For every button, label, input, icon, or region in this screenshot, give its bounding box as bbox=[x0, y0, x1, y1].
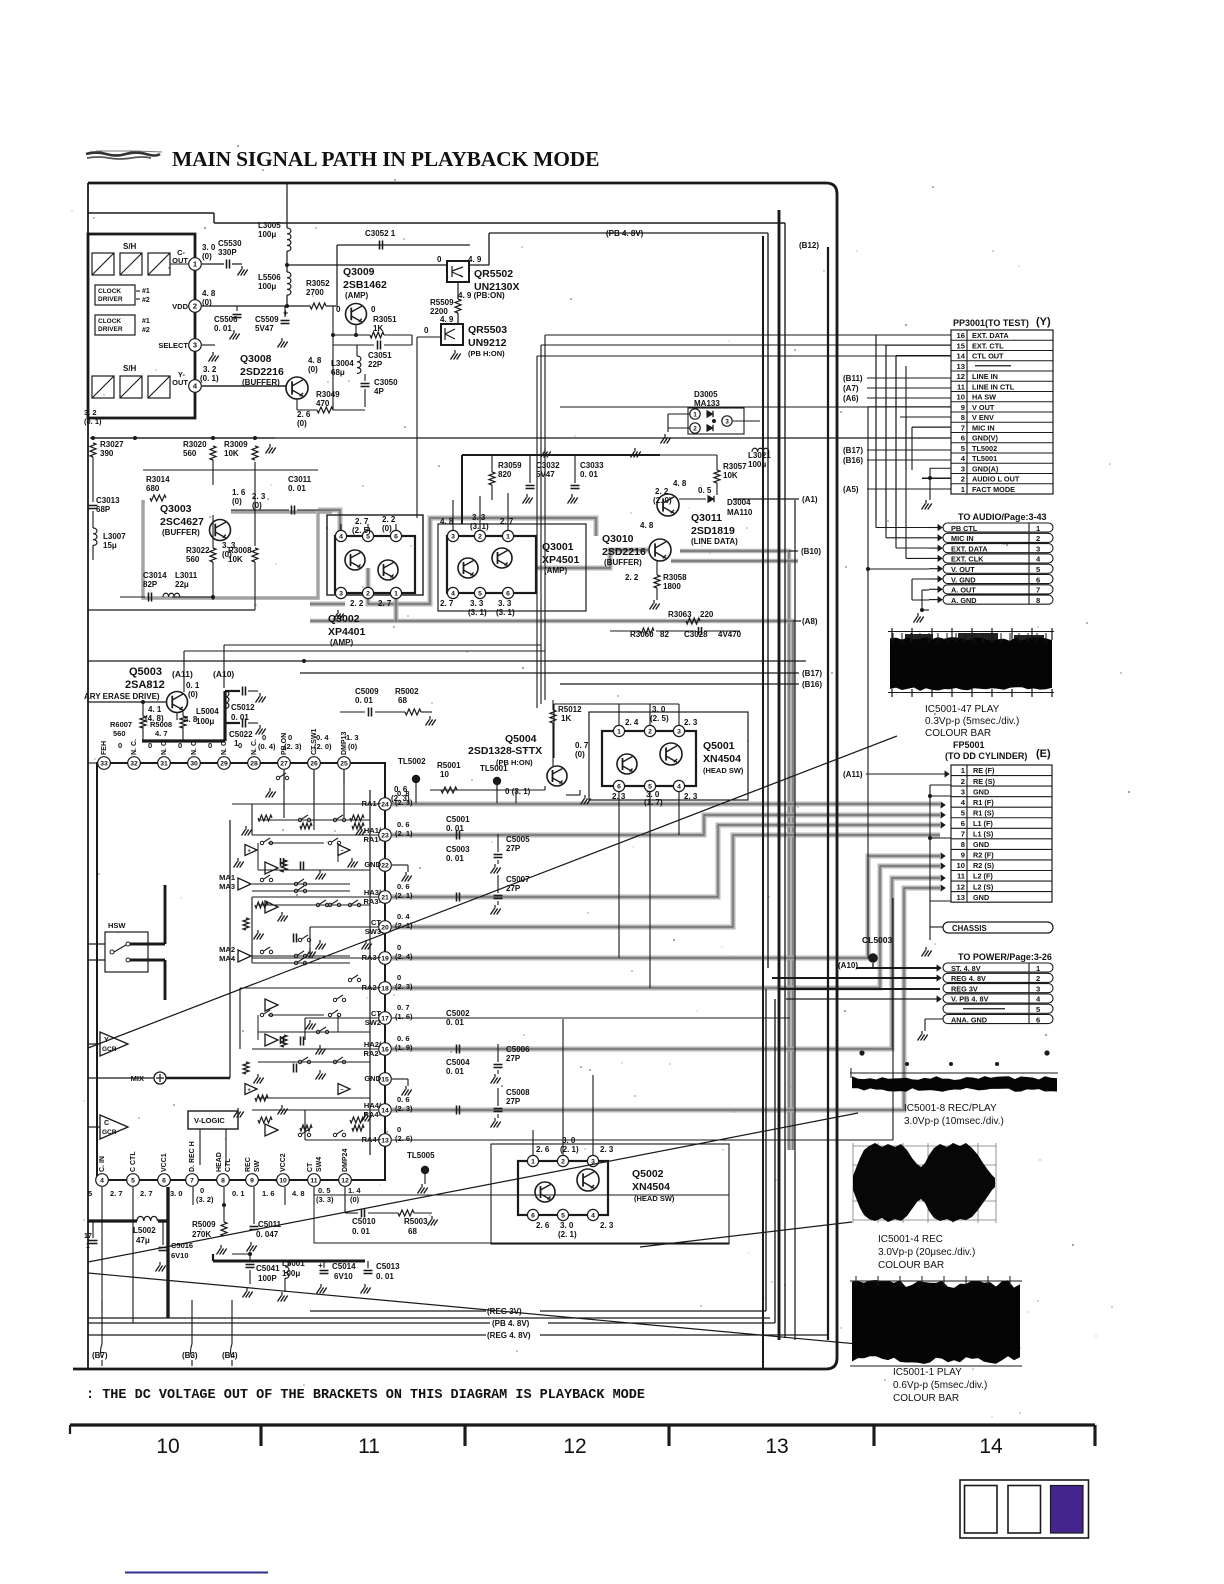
svg-text:470: 470 bbox=[316, 399, 330, 408]
svg-text:6V10: 6V10 bbox=[171, 1251, 189, 1260]
svg-text:6: 6 bbox=[394, 534, 398, 541]
svg-text:(PB 4. 8V): (PB 4. 8V) bbox=[492, 1319, 530, 1328]
svg-text:C3032: C3032 bbox=[536, 461, 560, 470]
svg-text:R5509: R5509 bbox=[430, 298, 454, 307]
svg-text:2: 2 bbox=[1036, 534, 1040, 543]
svg-text:0 (3. 1): 0 (3. 1) bbox=[505, 787, 531, 796]
svg-text:Q5001: Q5001 bbox=[703, 740, 735, 752]
svg-text:31: 31 bbox=[160, 761, 168, 768]
svg-text:0. 5: 0. 5 bbox=[318, 1186, 331, 1195]
svg-text:(2. 0): (2. 0) bbox=[314, 742, 332, 751]
svg-text:2SD2216: 2SD2216 bbox=[240, 366, 284, 378]
svg-text:C3033: C3033 bbox=[580, 461, 604, 470]
svg-text:1: 1 bbox=[506, 534, 510, 541]
svg-text:(Y): (Y) bbox=[1036, 316, 1051, 328]
svg-text:IC5001-1 PLAY: IC5001-1 PLAY bbox=[893, 1367, 962, 1378]
svg-text:ST. 4. 8V: ST. 4. 8V bbox=[951, 964, 981, 973]
svg-text:S/H: S/H bbox=[123, 242, 137, 251]
svg-text:11: 11 bbox=[358, 1435, 380, 1458]
svg-text:7: 7 bbox=[961, 423, 965, 432]
svg-text:0. 01: 0. 01 bbox=[446, 854, 464, 863]
svg-text:0.3Vp-p (5msec./div.): 0.3Vp-p (5msec./div.) bbox=[925, 716, 1019, 727]
svg-text:6: 6 bbox=[1036, 1015, 1040, 1024]
svg-text:C5012: C5012 bbox=[231, 703, 255, 712]
svg-text:HSW: HSW bbox=[108, 921, 126, 930]
svg-text:25: 25 bbox=[340, 761, 348, 768]
svg-text:CHASSIS: CHASSIS bbox=[952, 924, 987, 933]
svg-text:GND: GND bbox=[973, 787, 989, 796]
svg-text:0. 6: 0. 6 bbox=[397, 882, 410, 891]
svg-text:5V47: 5V47 bbox=[536, 470, 555, 479]
svg-text:560: 560 bbox=[183, 449, 197, 458]
svg-text:(0. 1): (0. 1) bbox=[84, 417, 102, 426]
svg-text:REG 3V: REG 3V bbox=[951, 984, 978, 993]
svg-text:13: 13 bbox=[957, 893, 965, 902]
svg-text:15: 15 bbox=[381, 1077, 389, 1084]
svg-text:: THE DC VOLTAGE OUT OF THE BR: : THE DC VOLTAGE OUT OF THE BRACKETS ON … bbox=[86, 1388, 645, 1403]
svg-text:(2. 4): (2. 4) bbox=[395, 952, 413, 961]
svg-text:0. 01: 0. 01 bbox=[231, 713, 249, 722]
svg-text:0. 047: 0. 047 bbox=[256, 1230, 279, 1239]
svg-text:(A5): (A5) bbox=[843, 485, 859, 494]
svg-text:0. 7: 0. 7 bbox=[397, 1003, 410, 1012]
svg-text:GND: GND bbox=[364, 860, 381, 869]
svg-text:2SD2216: 2SD2216 bbox=[602, 546, 646, 558]
svg-text:V. OUT: V. OUT bbox=[951, 565, 975, 574]
svg-text:28: 28 bbox=[250, 761, 258, 768]
svg-text:4. 8: 4. 8 bbox=[292, 1189, 305, 1198]
svg-text:MA110: MA110 bbox=[727, 508, 753, 517]
svg-text:0: 0 bbox=[118, 741, 122, 750]
svg-text:6: 6 bbox=[162, 1178, 166, 1185]
svg-text:68P: 68P bbox=[96, 505, 111, 514]
svg-text:3. 3: 3. 3 bbox=[472, 513, 486, 522]
svg-text:7: 7 bbox=[1036, 586, 1040, 595]
svg-text:3: 3 bbox=[1036, 984, 1040, 993]
svg-text:(AMP): (AMP) bbox=[544, 566, 567, 575]
svg-text:(A11): (A11) bbox=[843, 770, 863, 779]
svg-text:(1. 9): (1. 9) bbox=[395, 1043, 413, 1052]
svg-text:(2. 0): (2. 0) bbox=[653, 496, 672, 505]
svg-text:21: 21 bbox=[381, 895, 389, 902]
svg-text:0. 6: 0. 6 bbox=[397, 1095, 410, 1104]
svg-text:2SA812: 2SA812 bbox=[125, 679, 165, 691]
svg-text:27P: 27P bbox=[506, 1097, 521, 1106]
svg-text:V. PB 4. 8V: V. PB 4. 8V bbox=[951, 995, 989, 1004]
svg-text:IC5001-8 REC/PLAY: IC5001-8 REC/PLAY bbox=[904, 1103, 997, 1114]
svg-text:12: 12 bbox=[341, 1178, 349, 1185]
svg-text:(REG 4. 8V): (REG 4. 8V) bbox=[487, 1331, 531, 1340]
svg-text:16: 16 bbox=[381, 1047, 389, 1054]
svg-text:MA2: MA2 bbox=[219, 945, 235, 954]
svg-text:0. 01: 0. 01 bbox=[376, 1272, 394, 1281]
svg-text:3: 3 bbox=[961, 464, 965, 473]
svg-text:R5008: R5008 bbox=[150, 720, 172, 729]
svg-text:2: 2 bbox=[366, 591, 370, 598]
svg-text:17: 17 bbox=[381, 1016, 389, 1023]
svg-text:5: 5 bbox=[131, 1178, 135, 1185]
svg-text:3. 3: 3. 3 bbox=[498, 599, 512, 608]
svg-text:1. 3: 1. 3 bbox=[346, 733, 359, 742]
svg-text:(BUFFER): (BUFFER) bbox=[162, 528, 200, 537]
svg-text:(TO DD CYLINDER): (TO DD CYLINDER) bbox=[945, 751, 1027, 761]
svg-text:C5003: C5003 bbox=[446, 845, 470, 854]
svg-text:4: 4 bbox=[100, 1178, 104, 1185]
svg-text:0. 01: 0. 01 bbox=[355, 696, 373, 705]
svg-text:L5506: L5506 bbox=[258, 273, 281, 282]
svg-text:D3005: D3005 bbox=[694, 390, 718, 399]
svg-text:RA2-: RA2- bbox=[363, 1049, 381, 1058]
svg-text:270K: 270K bbox=[192, 1230, 211, 1239]
svg-text:82P: 82P bbox=[143, 580, 158, 589]
svg-text:CTL: CTL bbox=[225, 1158, 232, 1172]
svg-text:2SB1462: 2SB1462 bbox=[343, 279, 387, 291]
svg-text:1: 1 bbox=[193, 260, 197, 269]
svg-text:(2. 1): (2. 1) bbox=[558, 1230, 577, 1239]
svg-text:V ENV: V ENV bbox=[972, 413, 994, 422]
svg-text:0. 01: 0. 01 bbox=[214, 324, 232, 333]
svg-text:(PB H:ON): (PB H:ON) bbox=[468, 349, 505, 358]
svg-text:2. 7: 2. 7 bbox=[355, 517, 369, 526]
svg-text:4. 7: 4. 7 bbox=[155, 729, 168, 738]
svg-text:15: 15 bbox=[957, 341, 966, 350]
svg-text:(B16): (B16) bbox=[843, 456, 863, 465]
svg-text:0: 0 bbox=[208, 741, 212, 750]
svg-text:REG 4. 8V: REG 4. 8V bbox=[951, 974, 986, 983]
svg-text:CT: CT bbox=[371, 1009, 381, 1018]
svg-text:C5022: C5022 bbox=[229, 730, 253, 739]
svg-text:0: 0 bbox=[148, 741, 152, 750]
svg-text:(B7): (B7) bbox=[92, 1351, 108, 1360]
svg-text:Q3011: Q3011 bbox=[691, 512, 722, 524]
svg-text:R3027: R3027 bbox=[100, 440, 124, 449]
svg-text:4: 4 bbox=[961, 798, 966, 807]
svg-text:N. C.: N. C. bbox=[131, 739, 138, 755]
svg-text:C5008: C5008 bbox=[506, 1088, 530, 1097]
svg-text:15μ: 15μ bbox=[103, 541, 117, 550]
svg-text:6: 6 bbox=[506, 591, 510, 598]
svg-text:0: 0 bbox=[397, 1125, 401, 1134]
svg-text:220: 220 bbox=[700, 610, 714, 619]
svg-text:1. 6: 1. 6 bbox=[232, 488, 246, 497]
svg-text:0. 6: 0. 6 bbox=[397, 1034, 410, 1043]
svg-text:(2. 6): (2. 6) bbox=[395, 1134, 413, 1143]
svg-text:4: 4 bbox=[1036, 995, 1041, 1004]
svg-text:11: 11 bbox=[957, 382, 966, 391]
svg-text:8: 8 bbox=[961, 413, 965, 422]
svg-text:3: 3 bbox=[961, 787, 965, 796]
svg-text:L2 (F): L2 (F) bbox=[973, 872, 993, 881]
svg-text:(A10): (A10) bbox=[838, 961, 858, 970]
svg-text:4: 4 bbox=[961, 454, 966, 463]
svg-text:R3051: R3051 bbox=[373, 315, 397, 324]
svg-text:R3022: R3022 bbox=[186, 546, 210, 555]
svg-text:4: 4 bbox=[677, 784, 681, 791]
svg-text:4. 1: 4. 1 bbox=[148, 705, 162, 714]
svg-text:(0): (0) bbox=[382, 524, 392, 533]
svg-text:N. C.: N. C. bbox=[221, 739, 228, 755]
svg-text:1: 1 bbox=[531, 1159, 535, 1166]
svg-text:3: 3 bbox=[1036, 544, 1040, 553]
svg-text:COLOUR BAR: COLOUR BAR bbox=[893, 1393, 959, 1404]
svg-text:0. 01: 0. 01 bbox=[446, 824, 464, 833]
svg-text:(PB H:ON): (PB H:ON) bbox=[496, 758, 533, 767]
svg-text:4: 4 bbox=[339, 534, 343, 541]
svg-text:R5003: R5003 bbox=[404, 1217, 428, 1226]
svg-text:HA3/: HA3/ bbox=[364, 888, 382, 897]
svg-text:S/H: S/H bbox=[123, 364, 137, 373]
svg-text:R3049: R3049 bbox=[316, 390, 340, 399]
svg-text:2SC4627: 2SC4627 bbox=[160, 516, 204, 528]
svg-text:2. 7: 2. 7 bbox=[500, 517, 514, 526]
svg-text:33: 33 bbox=[100, 761, 108, 768]
svg-text:(A1): (A1) bbox=[802, 495, 818, 504]
svg-text:TO AUDIO/Page:3-43: TO AUDIO/Page:3-43 bbox=[958, 512, 1047, 522]
svg-text:0. 5: 0. 5 bbox=[698, 486, 712, 495]
svg-text:1. 6: 1. 6 bbox=[262, 1189, 275, 1198]
svg-text:(0): (0) bbox=[297, 419, 307, 428]
svg-text:560: 560 bbox=[113, 729, 126, 738]
svg-text:#1: #1 bbox=[142, 318, 150, 325]
svg-text:GND: GND bbox=[364, 1074, 381, 1083]
svg-text:13: 13 bbox=[957, 362, 965, 371]
svg-text:14: 14 bbox=[979, 1435, 1003, 1458]
svg-text:Q5003: Q5003 bbox=[129, 666, 162, 678]
svg-text:GND(V): GND(V) bbox=[972, 434, 999, 443]
svg-text:IC5001-4 REC: IC5001-4 REC bbox=[878, 1234, 943, 1245]
svg-text:Q3010: Q3010 bbox=[602, 533, 634, 545]
svg-text:EXT. CLK: EXT. CLK bbox=[951, 555, 984, 564]
svg-text:LINE IN: LINE IN bbox=[972, 372, 998, 381]
svg-text:(3. 2): (3. 2) bbox=[196, 1195, 214, 1204]
svg-text:(B12): (B12) bbox=[799, 241, 819, 250]
svg-text:3. 3: 3. 3 bbox=[470, 599, 484, 608]
svg-text:(A8): (A8) bbox=[802, 617, 818, 626]
svg-text:100P: 100P bbox=[258, 1274, 277, 1283]
svg-text:MAIN SIGNAL PATH IN PLAYBACK M: MAIN SIGNAL PATH IN PLAYBACK MODE bbox=[172, 147, 599, 171]
svg-text:OUT: OUT bbox=[172, 378, 188, 387]
svg-text:0.6Vp-p (5msec./div.): 0.6Vp-p (5msec./div.) bbox=[893, 1380, 987, 1391]
svg-text:XP4401: XP4401 bbox=[328, 626, 366, 638]
svg-text:7: 7 bbox=[190, 1178, 194, 1185]
svg-text:17: 17 bbox=[84, 1233, 92, 1240]
svg-text:C3013: C3013 bbox=[96, 496, 120, 505]
svg-text:L5004: L5004 bbox=[196, 707, 219, 716]
svg-text:100μ: 100μ bbox=[258, 282, 276, 291]
svg-text:1: 1 bbox=[617, 729, 621, 736]
svg-text:(0): (0) bbox=[252, 501, 262, 510]
svg-text:MIC IN: MIC IN bbox=[951, 534, 974, 543]
svg-text:V. GND: V. GND bbox=[951, 575, 975, 584]
svg-text:9: 9 bbox=[961, 403, 965, 412]
svg-text:(B4): (B4) bbox=[222, 1351, 238, 1360]
svg-text:(2. 3): (2. 3) bbox=[395, 982, 413, 991]
svg-text:2: 2 bbox=[961, 777, 965, 786]
svg-text:L3011: L3011 bbox=[175, 571, 198, 580]
svg-text:0. 6: 0. 6 bbox=[397, 820, 410, 829]
svg-text:10: 10 bbox=[440, 770, 449, 779]
svg-text:0. 01: 0. 01 bbox=[446, 1067, 464, 1076]
svg-text:4. 9 (PB:ON): 4. 9 (PB:ON) bbox=[458, 291, 505, 300]
svg-text:2. 3: 2. 3 bbox=[600, 1221, 614, 1230]
svg-text:0: 0 bbox=[288, 733, 292, 742]
svg-text:100μ: 100μ bbox=[196, 717, 214, 726]
svg-text:AUDIO L OUT: AUDIO L OUT bbox=[972, 475, 1020, 484]
svg-text:SW4: SW4 bbox=[316, 1157, 323, 1172]
svg-text:R2 (S): R2 (S) bbox=[973, 861, 995, 870]
svg-text:(PB 4. 8V): (PB 4. 8V) bbox=[606, 229, 644, 238]
svg-text:CLOCK: CLOCK bbox=[98, 318, 121, 325]
svg-text:+: + bbox=[248, 849, 251, 855]
svg-text:R2 (F): R2 (F) bbox=[973, 851, 994, 860]
svg-text:(LINE DATA): (LINE DATA) bbox=[691, 537, 738, 546]
svg-text:C5004: C5004 bbox=[446, 1058, 470, 1067]
svg-text:C5011: C5011 bbox=[258, 1220, 282, 1229]
svg-text:XN4504: XN4504 bbox=[632, 1181, 670, 1193]
svg-text:XN4504: XN4504 bbox=[703, 753, 741, 765]
svg-text:11: 11 bbox=[957, 872, 966, 881]
svg-text:3. 0: 3. 0 bbox=[170, 1189, 183, 1198]
svg-text:8: 8 bbox=[961, 840, 965, 849]
svg-text:(HEAD SW): (HEAD SW) bbox=[703, 766, 744, 775]
svg-text:Q5004: Q5004 bbox=[505, 733, 537, 745]
svg-text:(3. 1): (3. 1) bbox=[496, 608, 515, 617]
svg-text:C3014: C3014 bbox=[143, 571, 167, 580]
svg-text:3. 0: 3. 0 bbox=[202, 243, 216, 252]
svg-text:MA3: MA3 bbox=[219, 882, 235, 891]
svg-text:LINE IN CTL: LINE IN CTL bbox=[972, 382, 1015, 391]
svg-text:GND: GND bbox=[973, 893, 989, 902]
svg-text:C5530: C5530 bbox=[218, 239, 242, 248]
svg-text:4. 8: 4. 8 bbox=[202, 289, 216, 298]
svg-text:9: 9 bbox=[961, 851, 965, 860]
svg-text:(2. 1): (2. 1) bbox=[395, 829, 413, 838]
svg-text:0. 1: 0. 1 bbox=[186, 681, 200, 690]
svg-text:(B17): (B17) bbox=[843, 446, 863, 455]
svg-text:26: 26 bbox=[310, 761, 318, 768]
svg-text:0. 01: 0. 01 bbox=[288, 484, 306, 493]
svg-text:FP5001: FP5001 bbox=[953, 740, 985, 750]
svg-text:C5014: C5014 bbox=[332, 1262, 356, 1271]
svg-text:12: 12 bbox=[957, 882, 965, 891]
svg-text:0. 7: 0. 7 bbox=[575, 741, 589, 750]
svg-text:+: + bbox=[318, 1261, 323, 1270]
svg-text:RE (S): RE (S) bbox=[973, 777, 995, 786]
svg-text:10K: 10K bbox=[224, 449, 239, 458]
svg-text:DMP24: DMP24 bbox=[342, 1149, 349, 1172]
svg-text:390: 390 bbox=[100, 449, 114, 458]
svg-text:2. 3: 2. 3 bbox=[684, 792, 698, 801]
svg-text:(AMP): (AMP) bbox=[330, 638, 353, 647]
svg-text:3: 3 bbox=[193, 341, 197, 350]
svg-text:ANA. GND: ANA. GND bbox=[951, 1015, 987, 1024]
svg-text:SELECT: SELECT bbox=[158, 341, 188, 350]
svg-text:22μ: 22μ bbox=[175, 580, 189, 589]
svg-text:(A6): (A6) bbox=[843, 394, 859, 403]
svg-text:EXT. DATA: EXT. DATA bbox=[951, 544, 988, 553]
svg-text:0. 1: 0. 1 bbox=[232, 1189, 245, 1198]
svg-text:V OUT: V OUT bbox=[972, 403, 995, 412]
svg-text:10: 10 bbox=[957, 393, 965, 402]
svg-text:Q3003: Q3003 bbox=[160, 503, 192, 515]
svg-text:C5005: C5005 bbox=[506, 835, 530, 844]
svg-text:C5001: C5001 bbox=[446, 815, 470, 824]
svg-text:N. C.: N. C. bbox=[251, 739, 258, 755]
svg-text:68: 68 bbox=[398, 696, 407, 705]
svg-text:22: 22 bbox=[381, 863, 389, 870]
svg-text:CL5003: CL5003 bbox=[862, 935, 893, 945]
svg-text:PP3001(TO TEST): PP3001(TO TEST) bbox=[953, 318, 1029, 328]
svg-text:IC5001-47 PLAY: IC5001-47 PLAY bbox=[925, 704, 1000, 715]
svg-text:3: 3 bbox=[677, 729, 681, 736]
svg-text:#1: #1 bbox=[142, 288, 150, 295]
svg-text:D3004: D3004 bbox=[727, 498, 751, 507]
svg-text:(1. 7): (1. 7) bbox=[644, 798, 663, 807]
svg-text:0: 0 bbox=[437, 255, 442, 264]
svg-text:VCC2: VCC2 bbox=[280, 1153, 287, 1172]
svg-text:2SD1328-STTX: 2SD1328-STTX bbox=[468, 745, 542, 757]
svg-text:−: − bbox=[341, 1088, 344, 1094]
svg-text:27P: 27P bbox=[506, 844, 521, 853]
svg-text:2. 2: 2. 2 bbox=[350, 599, 364, 608]
svg-text:0. 01: 0. 01 bbox=[446, 1018, 464, 1027]
svg-text:Q5002: Q5002 bbox=[632, 1168, 664, 1180]
svg-text:(0. 4): (0. 4) bbox=[258, 742, 276, 751]
svg-text:−: − bbox=[341, 849, 344, 855]
svg-text:R5002: R5002 bbox=[395, 687, 419, 696]
svg-text:C5009: C5009 bbox=[355, 687, 379, 696]
svg-text:L1 (S): L1 (S) bbox=[973, 830, 994, 839]
svg-text:1: 1 bbox=[1036, 524, 1041, 533]
svg-text:1: 1 bbox=[394, 591, 398, 598]
svg-text:HA2/: HA2/ bbox=[364, 1040, 382, 1049]
svg-text:4. 8: 4. 8 bbox=[308, 356, 322, 365]
svg-text:C3011: C3011 bbox=[288, 475, 312, 484]
svg-text:2: 2 bbox=[693, 426, 697, 433]
svg-text:A. OUT: A. OUT bbox=[951, 586, 976, 595]
svg-text:TO POWER/Page:3-26: TO POWER/Page:3-26 bbox=[958, 952, 1052, 962]
svg-text:VCC1: VCC1 bbox=[161, 1153, 168, 1172]
svg-text:20: 20 bbox=[381, 925, 389, 932]
svg-text:2700: 2700 bbox=[306, 288, 324, 297]
svg-text:(3. 3): (3. 3) bbox=[316, 1195, 334, 1204]
svg-text:(2. 3): (2. 3) bbox=[395, 1104, 413, 1113]
svg-text:L1 (F): L1 (F) bbox=[973, 819, 993, 828]
svg-text:0: 0 bbox=[238, 741, 242, 750]
svg-text:(B10): (B10) bbox=[801, 547, 821, 556]
svg-text:R3014: R3014 bbox=[146, 475, 170, 484]
svg-text:12: 12 bbox=[957, 372, 965, 381]
svg-text:5: 5 bbox=[88, 1189, 92, 1198]
svg-text:(A7): (A7) bbox=[843, 384, 859, 393]
svg-text:R3009: R3009 bbox=[224, 440, 248, 449]
svg-text:C5013: C5013 bbox=[376, 1262, 400, 1271]
svg-text:2. 7: 2. 7 bbox=[110, 1189, 123, 1198]
svg-text:3. 2: 3. 2 bbox=[84, 408, 97, 417]
svg-text:DRIVER: DRIVER bbox=[98, 296, 123, 303]
svg-text:COLOUR BAR: COLOUR BAR bbox=[925, 728, 991, 739]
svg-text:R5012: R5012 bbox=[558, 705, 582, 714]
svg-text:L2 (S): L2 (S) bbox=[973, 882, 994, 891]
svg-text:4. 8: 4. 8 bbox=[673, 479, 687, 488]
svg-text:32: 32 bbox=[130, 761, 138, 768]
svg-text:3: 3 bbox=[451, 534, 455, 541]
svg-text:2. 6: 2. 6 bbox=[536, 1221, 550, 1230]
svg-text:R1 (S): R1 (S) bbox=[973, 808, 995, 817]
svg-text:(2. 3): (2. 3) bbox=[284, 742, 302, 751]
svg-text:0: 0 bbox=[424, 326, 429, 335]
svg-text:C5041: C5041 bbox=[256, 1264, 280, 1273]
